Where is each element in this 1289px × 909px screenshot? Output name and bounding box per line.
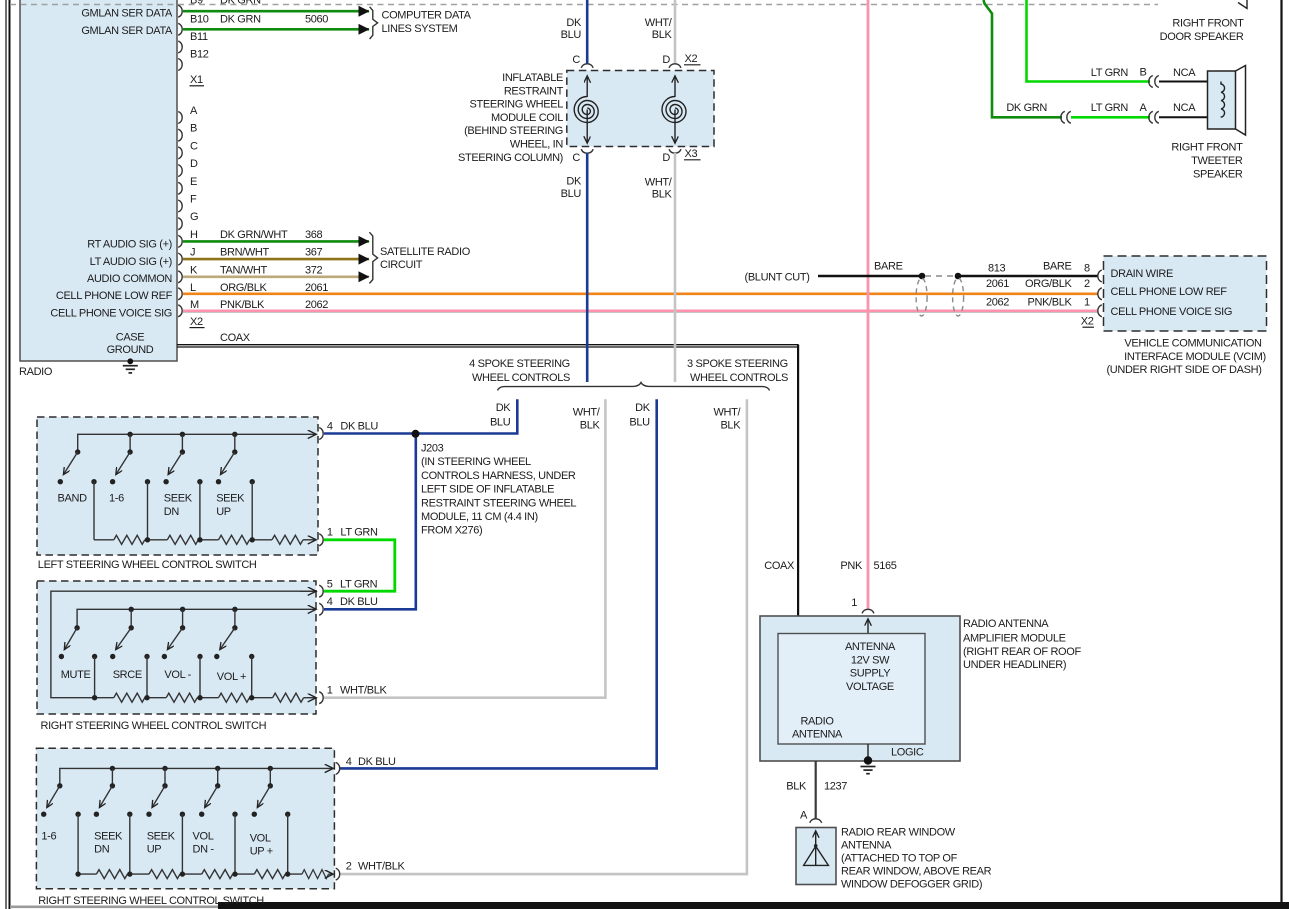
resistor ladder bus: [94, 539, 114, 541]
resistor R1: [96, 870, 127, 879]
svg-text:BLK: BLK: [720, 420, 741, 432]
svg-text:(BEHIND STEERING: (BEHIND STEERING: [464, 125, 563, 137]
radio pin bracket C: [178, 147, 182, 159]
radio pin bracket F: [178, 200, 182, 212]
svg-text:RIGHT FRONT: RIGHT FRONT: [1171, 142, 1243, 154]
svg-text:8: 8: [1084, 263, 1090, 275]
rear window antenna box: [796, 828, 836, 885]
svg-text:RADIO REAR WINDOW: RADIO REAR WINDOW: [841, 827, 956, 839]
ladder junction dots: [75, 871, 80, 876]
pin bracket 4: [336, 762, 340, 774]
switch 1-6: [57, 783, 62, 788]
switch VOL UP +: [268, 783, 273, 788]
svg-text:E: E: [190, 176, 197, 188]
svg-text:DK: DK: [566, 17, 582, 29]
svg-text:B: B: [190, 123, 197, 135]
page bottom border black bar: [218, 902, 1289, 909]
svg-text:L: L: [190, 282, 196, 294]
svg-text:SRCE: SRCE: [113, 669, 142, 681]
svg-text:PNK/BLK: PNK/BLK: [220, 299, 265, 311]
wire DK GRN vertical from top with jog: [984, 0, 1063, 117]
VCIM dashed box: [1104, 256, 1267, 331]
svg-text:BLU: BLU: [561, 188, 582, 200]
svg-text:DK GRN: DK GRN: [1006, 102, 1047, 114]
svg-text:CELL PHONE VOICE SIG: CELL PHONE VOICE SIG: [1111, 306, 1233, 318]
svg-text:RADIO: RADIO: [800, 716, 834, 728]
svg-text:BLU: BLU: [561, 29, 582, 41]
svg-text:AUDIO COMMON: AUDIO COMMON: [87, 273, 172, 285]
switch VOL -: [180, 625, 185, 630]
svg-text:DRAIN WIRE: DRAIN WIRE: [1111, 268, 1174, 280]
svg-text:368: 368: [305, 229, 323, 241]
case ground symbol: [123, 366, 138, 373]
switch VOL +: [232, 625, 237, 630]
svg-text:DOOR SPEAKER: DOOR SPEAKER: [1160, 31, 1244, 43]
resistor R4: [273, 693, 304, 702]
resistor R3: [202, 870, 233, 879]
svg-text:D: D: [190, 158, 198, 170]
svg-text:ANTENNA: ANTENNA: [841, 840, 892, 852]
svg-text:DN: DN: [164, 506, 180, 518]
switch MUTE: [74, 625, 79, 630]
resistor R1: [114, 535, 145, 544]
svg-text:COAX: COAX: [220, 332, 251, 344]
pin A bracket: [810, 819, 822, 823]
pin 1 arrow into inner box: [867, 619, 869, 634]
radio pin bracket G: [178, 218, 182, 230]
logic ground dot: [864, 756, 872, 764]
switch SEEK UP: [232, 449, 237, 454]
brace satellite radio: [369, 232, 377, 283]
svg-text:4: 4: [346, 756, 352, 768]
svg-text:D: D: [662, 54, 670, 66]
fixed contacts and drops: [75, 812, 80, 817]
wire LT GRN (switch1 pin1 to switch2 pin5): [324, 540, 395, 591]
fixed contacts and drops: [91, 479, 96, 484]
wire PNK 5165 vertical: [867, 0, 870, 610]
svg-text:BARE: BARE: [1043, 261, 1072, 273]
radio pin bracket A: [178, 112, 182, 124]
svg-text:H: H: [190, 229, 198, 241]
svg-text:COAX: COAX: [764, 560, 795, 572]
top bus: [60, 768, 333, 785]
svg-text:(RIGHT REAR OF ROOF: (RIGHT REAR OF ROOF: [963, 646, 1081, 658]
svg-text:1-6: 1-6: [41, 831, 56, 843]
pin D bottom bracket: [669, 149, 681, 153]
svg-text:1: 1: [851, 597, 857, 609]
svg-text:CIRCUIT: CIRCUIT: [380, 259, 423, 271]
svg-text:1237: 1237: [824, 781, 847, 793]
wire BARE right segment 813: [958, 275, 1098, 278]
wire LT GRN vertical from top: [1027, 0, 1151, 82]
svg-text:WHT/BLK: WHT/BLK: [358, 861, 405, 873]
svg-text:LINES SYSTEM: LINES SYSTEM: [382, 23, 458, 35]
page left border double line: [5, 0, 7, 909]
svg-text:RESTRAINT STEERING WHEEL: RESTRAINT STEERING WHEEL: [421, 497, 576, 509]
coil 2 down arrow: [674, 110, 676, 144]
svg-text:WHT/: WHT/: [573, 407, 601, 419]
svg-text:12V SW: 12V SW: [851, 654, 890, 666]
amplifier outer box: [760, 616, 960, 761]
switch box 2: [37, 581, 316, 714]
svg-text:813: 813: [988, 263, 1006, 275]
svg-text:RT AUDIO SIG (+): RT AUDIO SIG (+): [87, 239, 172, 251]
svg-text:A: A: [800, 810, 808, 822]
pin bracket 1: [319, 534, 323, 546]
svg-text:X2: X2: [190, 316, 203, 328]
ladder junction dots: [145, 537, 150, 542]
svg-text:WHT/BLK: WHT/BLK: [340, 685, 387, 697]
svg-text:STEERING COLUMN): STEERING COLUMN): [458, 152, 563, 164]
svg-text:(UNDER RIGHT SIDE OF DASH): (UNDER RIGHT SIDE OF DASH): [1106, 364, 1261, 376]
svg-text:DK GRN: DK GRN: [220, 0, 261, 7]
svg-text:LEFT SIDE OF INFLATABLE: LEFT SIDE OF INFLATABLE: [421, 484, 554, 496]
svg-text:2062: 2062: [305, 299, 328, 311]
svg-text:GROUND: GROUND: [107, 344, 154, 356]
svg-text:BLK: BLK: [652, 189, 673, 201]
resistor R3: [219, 693, 250, 702]
svg-text:GMLAN SER DATA: GMLAN SER DATA: [81, 25, 173, 37]
ladder junction dots: [92, 695, 97, 700]
svg-text:SPEAKER: SPEAKER: [1193, 169, 1243, 181]
wire DK BLU branch 2 (brace to switch3 pin4): [340, 399, 657, 768]
svg-text:DN: DN: [94, 844, 110, 856]
svg-text:GMLAN SER DATA: GMLAN SER DATA: [81, 8, 173, 20]
svg-text:4 SPOKE STEERING: 4 SPOKE STEERING: [469, 358, 570, 370]
junction J203 dot: [412, 430, 420, 438]
bus drops: [130, 609, 132, 628]
coil 2 up arrow: [674, 76, 676, 97]
svg-text:DK BLU: DK BLU: [358, 756, 396, 768]
radio pin bracket H: [178, 235, 182, 247]
svg-text:ORG/BLK: ORG/BLK: [220, 282, 267, 294]
svg-text:RADIO ANTENNA: RADIO ANTENNA: [963, 618, 1049, 630]
coax wire from radio to antenna amplifier: [177, 344, 799, 346]
svg-text:BAND: BAND: [58, 493, 88, 505]
svg-text:BLU: BLU: [490, 417, 511, 429]
svg-text:A: A: [1140, 102, 1148, 114]
svg-text:UP +: UP +: [250, 846, 273, 858]
pin bracket 4: [319, 603, 323, 615]
switch box 3: [36, 748, 334, 889]
svg-text:MUTE: MUTE: [61, 669, 91, 681]
svg-text:DK BLU: DK BLU: [340, 596, 378, 608]
svg-text:LT GRN: LT GRN: [1091, 67, 1129, 79]
switch SEEK DN: [180, 449, 185, 454]
svg-text:2061: 2061: [986, 278, 1009, 290]
wire DK BLU from coil pin C down to brace: [586, 153, 589, 382]
coil 2 spiral: [662, 97, 686, 123]
svg-text:VOL: VOL: [193, 831, 214, 843]
wire WHT/BLK from top to coil pin D: [674, 0, 677, 64]
svg-text:B9: B9: [190, 0, 203, 7]
svg-text:SEEK: SEEK: [94, 831, 123, 843]
svg-text:BLK: BLK: [580, 420, 601, 432]
svg-text:WHT/: WHT/: [645, 17, 673, 29]
radio pin bracket M: [178, 305, 182, 317]
antenna triangle symbol: [814, 844, 818, 848]
svg-text:X3: X3: [685, 148, 698, 160]
svg-text:WHEEL, IN: WHEEL, IN: [510, 139, 563, 151]
pin bracket 2: [336, 868, 340, 880]
junction dot shield left: [919, 273, 926, 280]
pin 1 bracket: [862, 609, 874, 613]
radio pin bracket B10: [178, 23, 182, 35]
svg-text:3 SPOKE STEERING: 3 SPOKE STEERING: [687, 358, 788, 370]
switch VOL DN -: [215, 783, 220, 788]
svg-text:STEERING WHEEL: STEERING WHEEL: [469, 99, 563, 111]
radio pin bracket D: [178, 165, 182, 177]
svg-text:AMPLIFIER MODULE: AMPLIFIER MODULE: [963, 633, 1066, 645]
svg-text:BARE: BARE: [874, 261, 903, 273]
svg-text:5060: 5060: [305, 13, 328, 25]
svg-text:SATELLITE RADIO: SATELLITE RADIO: [380, 246, 471, 258]
svg-text:X2: X2: [685, 53, 698, 65]
svg-text:PNK/BLK: PNK/BLK: [1027, 297, 1072, 309]
inline connector row B: [1149, 76, 1153, 88]
case ground dot: [127, 358, 133, 364]
svg-text:D: D: [662, 152, 670, 164]
logic ground symbol: [861, 767, 876, 774]
logic ground stub: [867, 744, 869, 759]
radio box: [20, 0, 177, 361]
radio pin bracket B12: [178, 59, 182, 71]
svg-text:C: C: [190, 140, 198, 152]
svg-text:BLU: BLU: [629, 417, 650, 429]
svg-text:INFLATABLE: INFLATABLE: [502, 72, 563, 84]
svg-text:2061: 2061: [305, 282, 328, 294]
svg-text:ANTENNA: ANTENNA: [845, 641, 896, 653]
svg-text:DK GRN/WHT: DK GRN/WHT: [220, 229, 288, 241]
svg-text:K: K: [190, 264, 198, 276]
svg-text:372: 372: [305, 264, 323, 276]
svg-text:LT AUDIO SIG (+): LT AUDIO SIG (+): [90, 256, 172, 268]
svg-text:REAR WINDOW, ABOVE REAR: REAR WINDOW, ABOVE REAR: [841, 866, 992, 878]
svg-text:DK: DK: [566, 176, 582, 188]
pin C bottom bracket: [581, 149, 593, 153]
radio pin bracket B9: [178, 5, 182, 17]
svg-text:J203: J203: [421, 443, 444, 455]
coil 1 up arrow: [586, 76, 588, 97]
svg-text:ANTENNA: ANTENNA: [792, 729, 843, 741]
svg-text:DK: DK: [496, 402, 512, 414]
svg-text:VOL +: VOL +: [217, 671, 246, 683]
svg-text:RIGHT STEERING WHEEL CONTROL S: RIGHT STEERING WHEEL CONTROL SWITCH: [41, 720, 267, 732]
coil 1 spiral: [574, 97, 598, 123]
svg-text:RADIO: RADIO: [19, 366, 53, 378]
radio pin bracket L: [178, 288, 182, 300]
svg-text:CELL PHONE VOICE SIG: CELL PHONE VOICE SIG: [50, 308, 172, 320]
bus dots: [110, 766, 115, 771]
svg-text:4: 4: [327, 596, 333, 608]
svg-text:X1: X1: [190, 74, 203, 86]
resistor R4: [272, 535, 303, 544]
resistor ladder: [95, 697, 114, 699]
radio pin bracket B11: [178, 41, 182, 53]
svg-text:LEFT STEERING WHEEL CONTROL SW: LEFT STEERING WHEEL CONTROL SWITCH: [38, 559, 257, 571]
VCIM pin bracket 1: [1098, 305, 1102, 317]
svg-text:J: J: [190, 247, 195, 259]
svg-text:WHT/: WHT/: [713, 407, 741, 419]
resistor R2: [167, 535, 198, 544]
svg-text:DK BLU: DK BLU: [340, 420, 378, 432]
svg-text:2: 2: [346, 861, 352, 873]
svg-text:DK: DK: [635, 402, 651, 414]
bus drops to hinges: [129, 434, 131, 452]
VCIM pin bracket 8: [1098, 270, 1102, 282]
svg-text:(BLUNT CUT): (BLUNT CUT): [745, 272, 810, 284]
svg-text:INTERFACE MODULE (VCIM): INTERFACE MODULE (VCIM): [1124, 351, 1266, 363]
wire DK BLU J203 drop (junction to switch2 pin4): [324, 434, 416, 610]
svg-text:SUPPLY: SUPPLY: [850, 668, 892, 680]
svg-text:1-6: 1-6: [109, 493, 124, 505]
page bottom border gray segment: [10, 906, 218, 909]
switch BAND: [75, 449, 80, 454]
wire WHT/BLK branch 2 (brace to switch3 pin2): [340, 399, 747, 874]
svg-text:SEEK: SEEK: [164, 493, 193, 505]
svg-text:CONTROLS HARNESS, UNDER: CONTROLS HARNESS, UNDER: [421, 470, 576, 482]
amplifier inner box: [778, 634, 925, 745]
svg-text:1: 1: [1084, 297, 1090, 309]
svg-text:LT GRN: LT GRN: [340, 578, 378, 590]
svg-text:NCA: NCA: [1173, 67, 1196, 79]
svg-text:G: G: [190, 211, 198, 223]
svg-text:367: 367: [305, 247, 323, 259]
antenna up arrow: [815, 831, 817, 846]
svg-text:PNK: PNK: [840, 560, 863, 572]
svg-text:MODULE COIL: MODULE COIL: [491, 112, 563, 124]
resistor R4: [254, 870, 285, 879]
svg-text:FROM X276): FROM X276): [421, 525, 482, 537]
svg-text:2062: 2062: [986, 297, 1009, 309]
svg-text:UNDER HEADLINER): UNDER HEADLINER): [963, 659, 1066, 671]
switch box 1: [37, 417, 318, 555]
svg-text:4: 4: [327, 420, 333, 432]
svg-text:TWEETER: TWEETER: [1191, 155, 1243, 167]
resistor R2: [166, 693, 197, 702]
svg-text:1: 1: [327, 685, 333, 697]
shield ellipse 2: [953, 278, 964, 316]
page right border: [1280, 0, 1282, 909]
bus dots: [129, 607, 134, 612]
inline connector row A: [1149, 111, 1153, 123]
svg-text:F: F: [190, 194, 197, 206]
svg-text:A: A: [190, 105, 198, 117]
svg-text:C: C: [572, 54, 580, 66]
door speaker symbol remnant (cut off top right): [1238, 0, 1247, 9]
svg-text:CASE: CASE: [116, 332, 145, 344]
svg-text:RIGHT STEERING WHEEL CONTROL S: RIGHT STEERING WHEEL CONTROL SWITCH: [38, 895, 264, 907]
svg-text:(IN STEERING WHEEL: (IN STEERING WHEEL: [421, 456, 531, 468]
wire WHT/BLK branch 1 (brace to switch2 pin1): [324, 399, 605, 697]
switch 1-6: [127, 449, 132, 454]
svg-text:5: 5: [327, 578, 333, 590]
svg-text:VEHICLE COMMUNICATION: VEHICLE COMMUNICATION: [1124, 338, 1262, 350]
pin5 bus wrap: [51, 591, 316, 698]
svg-text:2: 2: [1084, 278, 1090, 290]
pin bracket 5: [319, 585, 323, 597]
svg-text:RESTRAINT: RESTRAINT: [504, 85, 564, 97]
svg-text:5165: 5165: [874, 560, 897, 572]
svg-text:VOL: VOL: [250, 833, 271, 845]
svg-text:BLK: BLK: [652, 29, 673, 41]
tweeter speaker symbol: [1208, 71, 1236, 129]
svg-text:(ATTACHED TO TOP OF: (ATTACHED TO TOP OF: [841, 853, 958, 865]
wire BLK 1237: [815, 761, 817, 819]
pin5 bus arrow: [300, 590, 316, 592]
svg-text:LOGIC: LOGIC: [891, 747, 924, 759]
svg-text:BRN/WHT: BRN/WHT: [220, 247, 270, 259]
grouping brace: [498, 383, 770, 391]
resistor ladder: [78, 873, 96, 875]
radio pin bracket E: [178, 182, 182, 194]
inline connector DK GRN / LT GRN: [1061, 111, 1065, 123]
svg-text:SEEK: SEEK: [216, 493, 245, 505]
radio pin bracket J: [178, 253, 182, 265]
wire WHT/BLK from coil pin D down to brace: [674, 153, 677, 382]
svg-text:M: M: [190, 299, 199, 311]
top bus: [78, 434, 316, 452]
resistor R3: [219, 535, 250, 544]
svg-text:WHEEL CONTROLS: WHEEL CONTROLS: [472, 372, 570, 384]
switch SEEK DN: [110, 783, 115, 788]
svg-text:ORG/BLK: ORG/BLK: [1025, 278, 1072, 290]
bus drops: [111, 768, 113, 785]
svg-text:WINDOW DEFOGGER GRID): WINDOW DEFOGGER GRID): [841, 879, 982, 891]
svg-text:B10: B10: [190, 13, 209, 25]
resistor R2: [149, 870, 180, 879]
svg-text:X2: X2: [1081, 316, 1094, 328]
wire BARE left segment: [818, 275, 922, 278]
svg-text:B: B: [1140, 67, 1147, 79]
svg-text:DK GRN: DK GRN: [220, 13, 261, 25]
svg-text:CELL PHONE LOW REF: CELL PHONE LOW REF: [1111, 286, 1228, 298]
svg-text:WHEEL CONTROLS: WHEEL CONTROLS: [690, 372, 788, 384]
wire DK BLU from top to coil pin C: [586, 0, 589, 64]
dashed drain link: [925, 275, 955, 277]
fixed contacts and drops: [92, 654, 97, 659]
switch SRCE: [129, 625, 134, 630]
junction dot shield right: [955, 273, 962, 280]
svg-text:VOL -: VOL -: [164, 669, 191, 681]
wire DK BLU branch 1 (brace to J203 bus): [324, 399, 517, 433]
pin bracket 4: [319, 428, 323, 440]
brace computer data: [370, 7, 378, 39]
svg-text:B12: B12: [190, 49, 209, 61]
svg-text:BLK: BLK: [786, 781, 807, 793]
svg-text:COMPUTER DATA: COMPUTER DATA: [382, 10, 472, 22]
pin bracket 1: [319, 692, 323, 704]
svg-text:MODULE, 11 CM (4.4 IN): MODULE, 11 CM (4.4 IN): [421, 511, 538, 523]
svg-text:CELL PHONE LOW REF: CELL PHONE LOW REF: [56, 290, 173, 302]
svg-text:TAN/WHT: TAN/WHT: [220, 264, 267, 276]
resistor R5: [302, 870, 329, 879]
wire NCA to tweeter row B: [1159, 81, 1221, 83]
svg-text:LT GRN: LT GRN: [1091, 102, 1129, 114]
resistor R1: [114, 693, 145, 702]
pin C top bracket: [581, 64, 593, 68]
svg-text:UP: UP: [216, 506, 231, 518]
shield ellipse 1: [916, 278, 927, 316]
svg-text:SEEK: SEEK: [147, 831, 176, 843]
bus dots: [127, 432, 132, 437]
svg-text:LT GRN: LT GRN: [340, 527, 378, 539]
coil 1 down arrow: [586, 110, 588, 144]
svg-text:RIGHT FRONT: RIGHT FRONT: [1172, 18, 1244, 30]
wire LT GRN row A: [1071, 116, 1150, 119]
VCIM pin bracket 2: [1098, 288, 1102, 300]
svg-text:B11: B11: [190, 31, 208, 43]
